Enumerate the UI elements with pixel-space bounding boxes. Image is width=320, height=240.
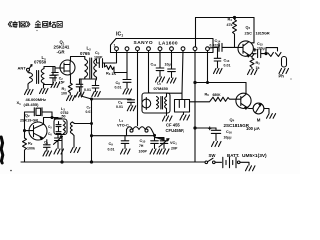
svg-text:Q4: Q4 [230, 117, 235, 123]
svg-text:X1: X1 [17, 100, 22, 106]
svg-text:100k: 100k [27, 147, 35, 151]
svg-text:C13: C13 [224, 59, 230, 64]
ceramic filter CF455 [175, 100, 190, 113]
wire Q4 emitter to meter [248, 107, 254, 110]
capacitor C11 on pin5 [156, 50, 164, 76]
coil L2 secondary [94, 59, 97, 77]
ground C12 [167, 78, 176, 83]
ground C8 [123, 89, 132, 94]
ground C9 [121, 149, 131, 154]
ground C4 [76, 92, 85, 97]
svg-text:Q2: Q2 [25, 114, 30, 119]
svg-text:C6: C6 [48, 132, 52, 137]
wire L1 secondary top to tank cap [44, 67, 53, 69]
node junction dot at R4 tap [233, 16, 235, 18]
svg-text:1815GR: 1815GR [256, 32, 270, 36]
ground VC1 [160, 149, 170, 154]
svg-text:100P: 100P [94, 56, 103, 60]
node junction dot pin9/AGC [207, 82, 209, 84]
ground L5 [163, 116, 173, 121]
capacitor C10 [151, 135, 159, 148]
wire AGC line from L2 bottom [81, 79, 131, 99]
wire C14 to Q3 base [231, 46, 238, 48]
wire L3 secondary top to mixer line [72, 122, 91, 124]
wire top rail left drop to IC top [195, 18, 197, 48]
wire pin3 down to L4 [137, 50, 139, 125]
title 《第1図》全回路図 (faked glyph strokes) [8, 21, 62, 28]
svg-text:SW: SW [209, 153, 217, 158]
svg-text:C9: C9 [109, 142, 114, 147]
capacitor C6 emitter bypass [44, 145, 51, 151]
coil L4 [127, 127, 152, 130]
wire Q1 source down [70, 75, 72, 83]
ground L1 secondary [40, 89, 49, 94]
svg-text:R2: R2 [28, 142, 33, 147]
svg-text:1: 1 [114, 44, 116, 48]
svg-text:100: 100 [61, 92, 67, 96]
wire AGC horizontal y82.5 [195, 82, 246, 84]
coil L3 secondary winding [70, 122, 72, 134]
ground C10 [150, 149, 160, 154]
capacitor C12 on pin6 [168, 50, 176, 77]
svg-text:(45.455): (45.455) [24, 102, 40, 107]
wire CF output to R6 [190, 100, 212, 102]
wire ant to L1 primary [28, 71, 30, 73]
capacitor C9b on AGC line [128, 99, 135, 106]
svg-text:0765: 0765 [80, 51, 90, 56]
svg-text:680K: 680K [213, 93, 222, 97]
wire meter to ground [264, 109, 269, 114]
coil L3 oscillator boxed coil [54, 118, 67, 135]
svg-text:C6: C6 [44, 141, 48, 146]
svg-text:20P: 20P [171, 147, 178, 151]
ground C7b [92, 92, 101, 97]
wire CF bottom to ground [183, 112, 185, 115]
svg-text:07M450: 07M450 [154, 86, 169, 91]
transistor Q3 audio [238, 41, 254, 57]
capacitor C4 [76, 79, 83, 92]
svg-text:10μ: 10μ [165, 63, 171, 67]
node dots osc line [91, 135, 93, 137]
svg-text:C16: C16 [226, 130, 232, 135]
svg-text:0.01: 0.01 [86, 110, 93, 114]
wire L3 box bottom to rail [61, 135, 63, 163]
wire Q3 emitter node [250, 56, 252, 58]
svg-text:0.01: 0.01 [116, 105, 123, 109]
wire L4 left end down [126, 130, 128, 136]
node L4 tap circles [130, 129, 133, 132]
coil L2 primary [85, 57, 88, 78]
wire B+ to C16 [195, 127, 216, 129]
trimmer capacitor C7 below L3 [54, 135, 63, 149]
svg-text:15P: 15P [59, 81, 66, 85]
resistor R1 [68, 83, 72, 95]
svg-text:VC1: VC1 [170, 141, 177, 146]
svg-text:R3 1K: R3 1K [106, 72, 116, 77]
transistor Q2 oscillator [25, 122, 48, 140]
ground R1 [67, 96, 76, 101]
svg-text:10μμ: 10μμ [224, 136, 232, 140]
node dot L3 rail [61, 161, 63, 163]
wire L3 secondary bottom to ground [72, 134, 74, 147]
ground C9b [127, 106, 136, 111]
wire bottom supply rail [21, 161, 195, 163]
svg-text:CFU455F,: CFU455F, [166, 128, 185, 133]
ground C7 [54, 149, 64, 154]
resistor R4 [233, 18, 237, 48]
wire Q1 drain to L2 [71, 57, 85, 61]
transistor Q4 meter driver [236, 93, 251, 109]
node junction dot B+/AGC [194, 81, 196, 83]
wire drop to Q4 collector [245, 83, 247, 95]
capacitor C2 on gate wire [52, 68, 58, 81]
svg-text:C10: C10 [140, 139, 146, 144]
wire Q2 collector up and right to L3 [44, 118, 59, 125]
wire B+ vertical from pin 8 to bottom rail [194, 50, 196, 162]
svg-text:LA1600: LA1600 [159, 40, 178, 46]
wire pin1 down [116, 50, 118, 63]
ground C2 [51, 83, 60, 88]
svg-text:UM5×1(3V): UM5×1(3V) [242, 153, 267, 159]
ground C6 [43, 151, 52, 156]
node base junction [24, 130, 26, 132]
svg-text:Ph: Ph [279, 74, 285, 79]
capacitor C15 electrolytic [252, 48, 266, 57]
ground L1 primary [25, 90, 34, 95]
earphone Ph [282, 57, 287, 68]
wire pin2 down [126, 50, 128, 79]
wire pin4 to L5 [149, 50, 152, 93]
node jack junction [265, 53, 267, 55]
resistor R6 [211, 97, 236, 101]
node dot C16 tap [194, 127, 196, 129]
wire L4 right end down [152, 130, 155, 136]
wire Q2 emitter down [46, 140, 48, 145]
wire crystal left down to base node [24, 112, 26, 138]
antenna terminal ANT [27, 65, 33, 72]
svg-text:0.01: 0.01 [224, 64, 231, 68]
capacitor C7b secondary bypass [92, 79, 99, 92]
wire L1 secondary bottom [44, 84, 54, 89]
svg-text:-GR: -GR [57, 50, 66, 55]
svg-text:SANYO: SANYO [134, 40, 154, 46]
wire L5 bottom to ground [166, 109, 168, 116]
capacitor C8 [123, 80, 131, 89]
svg-text:IC1: IC1 [116, 32, 123, 38]
resistor R5 [250, 58, 254, 69]
svg-text:2SC: 2SC [245, 32, 253, 36]
svg-text:100P: 100P [139, 150, 148, 154]
svg-text:0.01: 0.01 [108, 148, 115, 152]
svg-text:07550: 07550 [34, 60, 47, 65]
ground L3 secondary [71, 148, 81, 153]
svg-text:1k: 1k [256, 66, 260, 70]
svg-text:M: M [257, 118, 261, 123]
IC1 body [111, 39, 214, 53]
svg-text:CF 455: CF 455 [166, 123, 180, 128]
IC pin circles 1-9 [115, 47, 210, 51]
coil L1 primary winding [30, 73, 33, 83]
ground C13 [214, 69, 223, 74]
svg-text:0.01: 0.01 [115, 85, 122, 89]
resistor R3 [105, 63, 128, 73]
ground C16 [212, 142, 222, 147]
ground CF [180, 115, 190, 120]
svg-text:50: 50 [62, 114, 66, 118]
svg-text:100μ: 100μ [257, 47, 265, 51]
svg-text:0.01: 0.01 [84, 88, 91, 92]
capacitor C1 tank [50, 67, 57, 85]
wire gate from tank to Q1 [53, 67, 60, 69]
jack J1 [266, 48, 281, 57]
core L1 [37, 71, 39, 84]
wire top rail right drop to Q3 collector [253, 18, 255, 43]
svg-text:0.022μ: 0.022μ [210, 43, 221, 47]
svg-text:100 μA: 100 μA [246, 126, 260, 131]
ground battery [246, 166, 256, 171]
svg-text:VTO-C: VTO-C [117, 123, 129, 127]
svg-text:ANT: ANT [18, 66, 27, 71]
wire L5 secondary top to pin7 line [167, 93, 183, 96]
transistor Q1 2SK241 FET [60, 60, 76, 75]
scan speckles [10, 170, 12, 172]
svg-text:Q3: Q3 [246, 26, 251, 31]
battery BATT [215, 161, 221, 163]
capacitor C14 coupling [219, 43, 231, 51]
wire top supply rail [196, 17, 255, 19]
wire oscillator output horizontal [92, 99, 155, 162]
wire L2 bottoms to C4 [80, 77, 97, 79]
node junction dot collector/xtal [51, 117, 53, 119]
svg-text:7H: 7H [139, 144, 144, 148]
wire pin9 to C14 [209, 46, 218, 49]
scan edge artifact left margin [1, 137, 3, 163]
svg-text:R6: R6 [205, 93, 210, 98]
switch SW [195, 161, 205, 163]
crystal X1 [25, 108, 53, 116]
trimmer capacitor VC1 [155, 138, 170, 149]
svg-text:C5: C5 [48, 125, 52, 130]
svg-text:2SK19-GR: 2SK19-GR [20, 119, 38, 123]
wire L1 primary to ground [28, 83, 30, 90]
wire pin7 down to CF [182, 50, 183, 99]
IF transformer L5 07M450 [142, 93, 170, 113]
ground earphone [279, 69, 289, 74]
capacitor C16 electrolytic [208, 127, 220, 141]
ground C11 [156, 77, 165, 82]
ground R5 [248, 70, 258, 75]
wire pin9 down to AGC line [207, 50, 209, 82]
svg-text:BATT.: BATT. [227, 153, 239, 158]
capacitor C5 coupling to pin1 [99, 59, 115, 68]
core L2 [90, 58, 92, 78]
svg-text:C11: C11 [151, 63, 157, 68]
coil L1 secondary winding [41, 69, 44, 84]
wire crystal right down to collector node [51, 112, 53, 118]
capacitor C13 [214, 47, 221, 67]
svg-text:47k: 47k [227, 23, 233, 27]
svg-text:R4: R4 [228, 18, 233, 23]
wire L2 secondary top to C5 [97, 59, 100, 63]
meter M [253, 103, 264, 114]
resistor R2 [23, 138, 27, 162]
ground meter [267, 114, 276, 119]
capacitor C9 [121, 136, 129, 149]
